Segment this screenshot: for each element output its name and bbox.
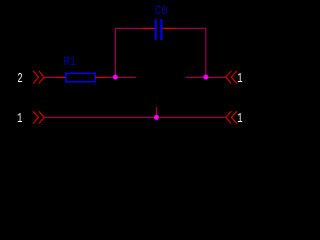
svg-text:R1: R1: [63, 56, 76, 70]
capacitor C0 pin 2 lead: [163, 27, 176, 29]
port P1 chevron: [33, 111, 44, 123]
port P4 chevron: [226, 111, 237, 123]
wire middle to junction A: [106, 76, 137, 78]
svg-text:C0: C0: [155, 4, 168, 18]
port 2 label: [17, 70, 22, 87]
wire middle-right to junction B: [186, 76, 226, 78]
wire middle-left: [44, 76, 55, 78]
junction A dot: [113, 75, 118, 80]
capacitor C0 plate right: [160, 19, 162, 40]
port 1 bottom-right label: [237, 110, 242, 127]
svg-text:1: 1: [237, 70, 242, 87]
wire bottom rail: [44, 116, 225, 118]
svg-text:1: 1: [17, 110, 22, 127]
wire capacitor branch right (over and down): [176, 28, 206, 77]
resistor R1 label: [63, 56, 76, 70]
capacitor C0 pin 1 lead: [142, 27, 155, 29]
port 1 right-middle label: [237, 70, 242, 87]
wire bottom stub: [156, 107, 158, 117]
svg-text:2: 2: [17, 70, 22, 87]
wire capacitor branch left (up and over): [115, 28, 142, 77]
port P3 chevron: [226, 71, 237, 84]
junction B dot: [203, 75, 208, 80]
port 1 bottom-left label: [17, 110, 22, 127]
resistor R1 body: [66, 73, 95, 82]
junction C dot: [154, 115, 159, 120]
capacitor C0 plate left: [155, 19, 157, 40]
resistor R1 pin 2 lead: [95, 76, 106, 78]
resistor R1 pin 1 lead: [55, 76, 66, 78]
capacitor C0 label: [155, 4, 168, 18]
port P2 chevron: [33, 71, 44, 84]
svg-text:1: 1: [237, 110, 242, 127]
